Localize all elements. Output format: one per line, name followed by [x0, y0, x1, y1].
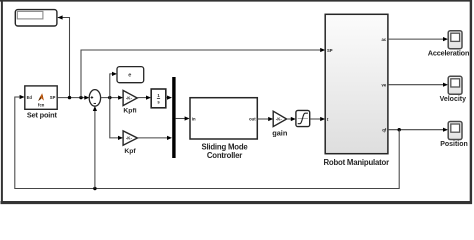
label Acceleration — [428, 49, 469, 58]
wire saturation to Robot Manipulator — [310, 117, 326, 121]
wire branch node C down to gain Kpf — [110, 98, 123, 140]
svg-text:e: e — [128, 73, 131, 79]
label gain — [272, 128, 288, 137]
svg-text:-K-: -K- — [126, 96, 133, 101]
svg-text:Kpfi: Kpfi — [123, 108, 136, 115]
block Set point (MATLAB Fcn) — [25, 86, 57, 109]
wire Kpf to mux — [137, 136, 172, 140]
junction node B (SP branch to robot) — [79, 96, 82, 99]
block Robot Manipulator — [325, 14, 388, 153]
block e (Goto) — [117, 67, 144, 83]
label Sliding Mode Controller — [201, 143, 248, 161]
mux — [172, 77, 175, 158]
wire feedback to sum minus input — [93, 106, 97, 189]
svg-text:out: out — [249, 116, 256, 121]
svg-text:Position: Position — [440, 141, 468, 148]
wire ac output to Acceleration scope — [388, 37, 448, 41]
svg-text:SP: SP — [50, 95, 56, 100]
svg-text:Robot Manipulator: Robot Manipulator — [323, 158, 389, 167]
svg-text:Velocity: Velocity — [440, 96, 467, 103]
label Kpfi — [123, 108, 136, 115]
svg-text:-K-: -K- — [126, 136, 133, 141]
wire display input from node A — [58, 15, 70, 96]
svg-text:fcn: fcn — [38, 102, 45, 107]
junction node E (feedback to sum branch) — [93, 187, 96, 190]
label Kpf — [124, 148, 136, 155]
integrator 1/s — [151, 89, 166, 108]
svg-text:Controller: Controller — [207, 151, 242, 160]
svg-text:ac: ac — [382, 37, 387, 42]
svg-text:Set point: Set point — [27, 111, 58, 120]
junction node A (display branch) — [68, 96, 71, 99]
scope Acceleration — [448, 31, 462, 49]
svg-text:qf: qf — [382, 128, 387, 133]
wire Set point SP output to sum — [57, 96, 89, 100]
wire gain to saturation — [287, 117, 296, 121]
wire SP branch to Robot Manipulator input — [81, 48, 325, 98]
wire SMC to gain — [257, 117, 273, 121]
block Sliding Mode Controller — [190, 98, 257, 139]
wire Kpfi to integrator — [137, 96, 151, 100]
label Velocity — [440, 96, 467, 103]
label Position — [440, 141, 468, 148]
svg-text:-K-: -K- — [276, 117, 283, 122]
wire sum output to gain Kpfi — [101, 96, 124, 100]
gain Kpf — [123, 131, 137, 145]
scope Position — [448, 122, 462, 140]
junction node C (error branch) — [108, 96, 111, 99]
sum junction — [89, 90, 100, 107]
svg-text:SP: SP — [327, 48, 333, 53]
gain Kpfi — [123, 90, 137, 105]
wire position feedback loop — [15, 95, 399, 189]
gain gain — [273, 111, 286, 126]
svg-text:gain: gain — [272, 128, 288, 137]
display block (scope display) — [15, 10, 57, 26]
wire branch node C up to block e — [110, 72, 117, 98]
svg-text:Kpf: Kpf — [124, 148, 136, 155]
scope Velocity — [448, 76, 462, 94]
label Set point — [27, 111, 58, 120]
svg-text:Ed: Ed — [27, 95, 33, 100]
svg-text:Acceleration: Acceleration — [428, 49, 469, 58]
label Robot Manipulator — [323, 158, 389, 167]
wire mux to Sliding Mode Controller — [176, 116, 190, 120]
wire ve output to Velocity scope — [388, 83, 448, 87]
svg-text:ve: ve — [382, 83, 387, 88]
junction node D (position feedback branch) — [398, 128, 401, 131]
saturation — [296, 110, 310, 126]
wire qf output to Position scope — [388, 128, 448, 132]
svg-text:in: in — [192, 116, 196, 121]
wire integrator to mux — [166, 96, 172, 100]
